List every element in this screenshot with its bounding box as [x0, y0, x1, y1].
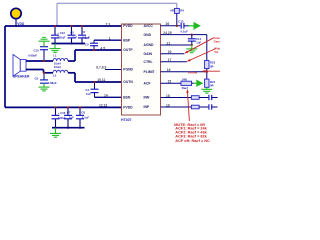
svg-text:PLIMIT: PLIMIT — [144, 70, 156, 74]
svg-text:HT307: HT307 — [121, 118, 132, 122]
svg-text:2,3: 2,3 — [106, 22, 111, 26]
svg-text:0.1uF: 0.1uF — [82, 116, 90, 120]
svg-text:16: 16 — [167, 68, 171, 72]
svg-text:1uF: 1uF — [69, 116, 74, 120]
svg-text:+ C16: + C16 — [58, 111, 66, 115]
svg-text:ACF3: Racf = 82k: ACF3: Racf = 82k — [175, 135, 207, 139]
svg-text:BSN: BSN — [123, 96, 131, 100]
svg-text:C9: C9 — [35, 77, 39, 81]
svg-text:0.68uF: 0.68uF — [28, 54, 37, 58]
svg-text:GAIN: GAIN — [144, 52, 153, 56]
svg-text:Yellow: Yellow — [188, 71, 198, 75]
svg-text:Gain: Gain — [214, 39, 220, 43]
svg-text:ACF2: Racf = 43k: ACF2: Racf = 43k — [175, 131, 207, 135]
svg-text:INP: INP — [144, 105, 150, 109]
svg-text:1: 1 — [109, 36, 111, 40]
svg-text:C3: C3 — [85, 42, 89, 46]
svg-text:0.68uF: 0.68uF — [48, 81, 57, 85]
svg-text:0.1uF: 0.1uF — [181, 29, 189, 33]
svg-text:1uF: 1uF — [86, 92, 91, 96]
svg-text:Vol: Vol — [214, 50, 218, 54]
svg-text:4,5: 4,5 — [101, 46, 106, 50]
svg-text:SPEAKER: SPEAKER — [13, 75, 30, 79]
svg-text:0R: 0R — [210, 84, 214, 88]
svg-text:24K: 24K — [182, 77, 187, 81]
svg-text:18: 18 — [166, 94, 170, 98]
svg-text:BSP: BSP — [123, 38, 131, 42]
svg-text:21: 21 — [167, 42, 171, 46]
svg-text:C5: C5 — [70, 30, 74, 34]
svg-text:+ C13: + C13 — [57, 31, 65, 35]
svg-text:C13: C13 — [178, 20, 184, 24]
svg-text:INN: INN — [144, 96, 150, 100]
svg-text:PVDD: PVDD — [123, 106, 133, 110]
svg-text:24,25: 24,25 — [163, 31, 171, 35]
svg-text:10,11: 10,11 — [97, 78, 105, 82]
svg-text:OUTP: OUTP — [123, 48, 133, 52]
svg-text:ACF off: Racf = NC: ACF off: Racf = NC — [175, 139, 210, 143]
svg-text:1uF: 1uF — [85, 36, 90, 40]
svg-text:PVDD: PVDD — [123, 24, 133, 28]
svg-text:10uH: 10uH — [54, 65, 61, 69]
svg-text:CTRL: CTRL — [144, 60, 153, 64]
svg-text:AVCC: AVCC — [144, 24, 154, 28]
svg-text:C6: C6 — [82, 30, 86, 34]
svg-text:MUTE: Racf = 0R: MUTE: Racf = 0R — [174, 123, 205, 127]
svg-text:OUTN: OUTN — [123, 80, 133, 84]
svg-text:ACF: ACF — [144, 81, 151, 85]
svg-text:6,7,8,9: 6,7,8,9 — [96, 66, 106, 70]
svg-text:L2: L2 — [53, 73, 57, 77]
svg-text:R4: R4 — [180, 8, 184, 12]
svg-text:19: 19 — [166, 103, 170, 107]
svg-text:GND: GND — [144, 33, 152, 37]
svg-text:20: 20 — [168, 50, 172, 54]
svg-text:ACF1: Racf = 24k: ACF1: Racf = 24k — [175, 127, 207, 131]
svg-text:0R: 0R — [210, 64, 214, 68]
svg-text:C7: C7 — [67, 110, 71, 114]
svg-text:14: 14 — [104, 94, 108, 98]
svg-text:220uF: 220uF — [57, 36, 65, 40]
svg-text:12,13: 12,13 — [99, 103, 107, 107]
svg-text:C10: C10 — [34, 49, 40, 53]
svg-text:1uF: 1uF — [72, 36, 77, 40]
svg-text:220uF: 220uF — [58, 116, 66, 120]
svg-text:C4: C4 — [86, 88, 90, 92]
svg-text:C8: C8 — [81, 110, 85, 114]
svg-text:1uF: 1uF — [196, 41, 201, 45]
svg-text:17: 17 — [168, 58, 172, 62]
svg-text:15: 15 — [168, 80, 172, 84]
svg-text:AGND: AGND — [144, 43, 155, 47]
svg-text:L1: L1 — [53, 54, 57, 58]
svg-text:26: 26 — [166, 22, 170, 26]
svg-text:Racf: Racf — [182, 86, 188, 90]
svg-text:PGND: PGND — [123, 68, 133, 72]
